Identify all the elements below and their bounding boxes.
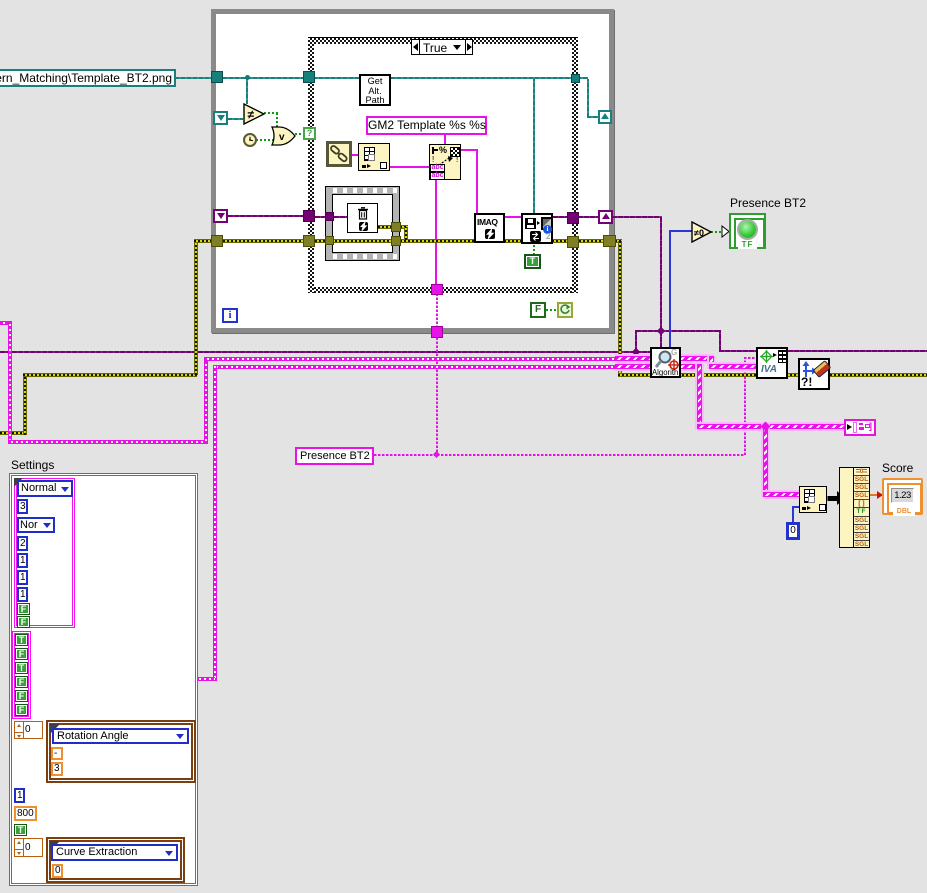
svg-text:≠: ≠ [248, 108, 255, 122]
svg-text:v: v [279, 132, 285, 143]
svg-text:≠0: ≠0 [694, 228, 704, 238]
